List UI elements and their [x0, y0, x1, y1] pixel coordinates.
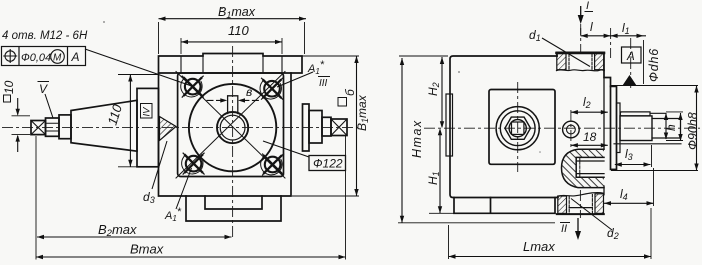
- drive shaft step: [59, 115, 71, 139]
- dim B1max top: line: [159, 18, 307, 20]
- top flange hatch block left: [557, 54, 566, 70]
- scan speck: [458, 71, 460, 73]
- right view inner face rect: [489, 90, 555, 165]
- right output shaft step: [322, 117, 331, 136]
- boss circle F122: [189, 84, 276, 171]
- svg-text:В1max: В1max: [218, 5, 256, 20]
- center plug square socket: [512, 122, 524, 134]
- scan speck: [103, 21, 105, 23]
- leader from tolerance frame to top-left bolt hole: [85, 49, 193, 87]
- d2 section bottom line: [557, 213, 604, 215]
- shaft flange disc 2: [617, 103, 621, 153]
- d2 thread line right: [591, 195, 593, 214]
- right shaft block 1: [620, 116, 652, 141]
- label IV in box rotated: [141, 104, 153, 119]
- extension lines for Bmax/B2max: [36, 136, 346, 260]
- dim 18: line: [571, 144, 608, 146]
- dim 110 vertical left: line: [129, 75, 131, 167]
- svg-text:A: A: [626, 51, 635, 63]
- d2 hole floor line: [569, 207, 592, 209]
- dim Fd h6 extensions: [611, 86, 698, 171]
- housing base tab: [186, 196, 281, 221]
- label square 10 rotated: [4, 95, 11, 102]
- svg-text:d2: d2: [607, 226, 619, 241]
- svg-text:М: М: [53, 53, 62, 64]
- datum A axis: [630, 38, 632, 88]
- dim B1max right vertical: line: [356, 56, 358, 196]
- diagonal construction line 2: [176, 72, 285, 179]
- center hex plug circle 2: [500, 111, 535, 146]
- svg-text:в: в: [246, 85, 252, 99]
- right view horizontal centerline: [424, 127, 700, 129]
- drive shaft taper cone: [71, 100, 137, 151]
- svg-text:l4: l4: [620, 187, 628, 202]
- section I axis: [580, 24, 582, 54]
- svg-text:d3: d3: [143, 190, 155, 205]
- leader V to shaft end: [45, 94, 53, 118]
- right shaft block 2: [652, 119, 681, 139]
- left gasket strip: [446, 94, 453, 156]
- bolt hole M12 top-left: [181, 76, 203, 97]
- label b with square: [338, 98, 347, 107]
- right view boss vertical centerline: [517, 82, 519, 172]
- svg-text:Ф0,04: Ф0,04: [21, 52, 51, 64]
- label F122 in box: [309, 156, 346, 171]
- dim Hmax: line: [401, 58, 403, 223]
- leader d3 to plug: [152, 141, 167, 189]
- dim square10: extensions and arrows: [12, 116, 31, 135]
- svg-text:III: III: [319, 78, 328, 89]
- drive shaft square end with cross: [31, 121, 46, 135]
- svg-text:d1: d1: [529, 28, 541, 43]
- right shaft key: [620, 112, 665, 116]
- housing rear plate (left view): [159, 73, 292, 196]
- svg-text:А1*: А1*: [307, 59, 325, 76]
- housing base inner recess: [205, 196, 262, 209]
- port thread minor line: [579, 157, 581, 177]
- right view main body: [450, 56, 558, 198]
- svg-text:110: 110: [228, 23, 249, 38]
- bottom hole d2 section: right block: [595, 194, 604, 214]
- leader F122 box to boss circle: [263, 141, 309, 157]
- d2 wavy top break line: [558, 193, 604, 197]
- shaft flange disc: [611, 86, 617, 169]
- svg-text:Н1: Н1: [426, 171, 441, 185]
- dim F90h8: line: [680, 113, 682, 141]
- leader A1* top-right to bolt hole: [277, 72, 313, 87]
- right shaft bottom line: [614, 143, 681, 145]
- svg-text:Н2: Н2: [426, 82, 441, 96]
- svg-text:Фdh6: Фdh6: [647, 48, 661, 82]
- port thread lines: [576, 161, 604, 174]
- svg-text:В2max: В2max: [98, 222, 137, 239]
- left view horizontal centerline: [2, 127, 358, 129]
- dim Lmax: line: [449, 256, 652, 258]
- top flange thread lines left: [568, 54, 570, 70]
- keyway slot above bore: [228, 96, 238, 114]
- small port circle inner: [567, 125, 576, 134]
- svg-text:Нmax: Нmax: [410, 119, 424, 158]
- bolt hole M12 bottom-left: [182, 153, 204, 174]
- bolt hole M12 top-right: [260, 78, 282, 99]
- svg-text:Ф122: Ф122: [313, 157, 343, 171]
- top flange hatch block right: [595, 54, 604, 70]
- svg-text:А1*: А1*: [164, 206, 182, 223]
- dim B2max: line: [37, 236, 232, 238]
- housing front face square: [178, 73, 284, 177]
- bottom hole d2 section: left block: [558, 196, 567, 213]
- svg-text:l3: l3: [625, 147, 633, 162]
- svg-text:Ф90h8: Ф90h8: [686, 112, 700, 150]
- scan speck: [221, 7, 223, 9]
- scan speck: [539, 151, 541, 153]
- dim Fd h6: line: [696, 86, 698, 171]
- drive shaft threaded section: [46, 118, 60, 136]
- body right edge mid: [603, 78, 605, 195]
- dim l4: line: [604, 202, 654, 204]
- dim B keyway arrows: [207, 99, 259, 101]
- svg-text:4 отв. М12 - 6Н: 4 отв. М12 - 6Н: [2, 30, 88, 42]
- leader d2 to hole (right view): [571, 199, 612, 231]
- flange section wavy bottom break line: [557, 70, 605, 71]
- dim Bmax: line: [36, 256, 346, 258]
- d2 thread line left: [568, 197, 570, 214]
- svg-text:В1max: В1max: [355, 94, 370, 131]
- section arrow II: [577, 218, 579, 234]
- dim H2: line: [441, 57, 443, 127]
- pump housing top flange band (left view): [159, 54, 303, 74]
- datum A frame: [622, 47, 642, 63]
- center hex plug hexagon: [505, 117, 531, 139]
- right output shaft block: [309, 111, 322, 144]
- bolt hole M12 bottom-right: [261, 154, 284, 175]
- base slab: [454, 198, 555, 214]
- top flange thread lines right: [591, 54, 593, 70]
- svg-text:V: V: [39, 82, 48, 96]
- body right edge upper: [604, 70, 611, 86]
- small port circle outer: [563, 121, 580, 138]
- svg-text:I: I: [586, 0, 589, 12]
- svg-text:Вmax: Вmax: [130, 242, 164, 257]
- leader A1* bottom-left to bolt hole: [176, 168, 192, 209]
- datum A triangle: [623, 75, 637, 86]
- dim l and l1: line: [581, 35, 646, 37]
- svg-text:l1: l1: [622, 21, 630, 36]
- shaft bore inner circle: [220, 115, 245, 140]
- right output shaft square end with cross: [331, 119, 347, 136]
- dim H1: line: [439, 130, 441, 214]
- left view vertical centerline: [232, 46, 234, 240]
- dim l2: line: [571, 111, 608, 113]
- svg-text:10: 10: [2, 80, 16, 94]
- svg-text:Lmax: Lmax: [523, 239, 555, 254]
- flange band segment lines: [181, 56, 282, 73]
- diagonal construction line 1: [176, 72, 285, 179]
- dim 110 top: line: [181, 41, 282, 43]
- section II axis: [579, 190, 581, 218]
- right output shaft flange washer: [303, 104, 310, 151]
- svg-text:б: б: [343, 88, 357, 96]
- svg-text:II: II: [561, 223, 567, 235]
- tolerance frame: [2, 47, 86, 66]
- center hex plug outer circle: [496, 107, 539, 150]
- l/l1 extension axis: [610, 28, 612, 58]
- section arrow I: [580, 6, 582, 18]
- svg-text:A: A: [71, 50, 80, 64]
- leader d1 to hole (right view): [542, 38, 590, 67]
- dim h: line: [665, 113, 667, 139]
- center plug circle 3: [509, 120, 526, 137]
- small port circle vertical centerline: [570, 110, 572, 148]
- svg-text:l2: l2: [583, 95, 591, 110]
- svg-text:IV: IV: [142, 106, 153, 117]
- side port boss sectioned: [562, 149, 605, 187]
- dim l3: line: [615, 164, 651, 166]
- left mounting flange strip: [137, 88, 159, 166]
- shaft bore outer circle: [217, 112, 248, 143]
- svg-text:h: h: [664, 124, 678, 131]
- plug d3 on left edge: [160, 117, 177, 141]
- svg-text:18: 18: [583, 130, 597, 144]
- svg-text:l: l: [590, 20, 593, 34]
- top flange section outline: [557, 52, 604, 70]
